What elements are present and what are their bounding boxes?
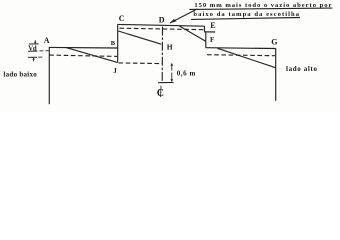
svg-text:E: E xyxy=(210,21,215,30)
svg-text:G: G xyxy=(271,38,277,47)
0,6 m dimension: up arrow xyxy=(170,63,173,71)
slope diagonal in cell C (to centerline, point H) xyxy=(118,31,161,44)
surface line A-B xyxy=(49,46,117,49)
0,6 m dimension: down arrow xyxy=(170,73,173,82)
dimension Vd: top arrow (points down to tick) xyxy=(34,40,37,44)
dimension Vd: top tick xyxy=(29,43,39,45)
dashed line under F-G xyxy=(207,55,275,56)
svg-text:J: J xyxy=(113,67,117,75)
underline of text line 1 xyxy=(189,8,332,9)
svg-text:0,6 m: 0,6 m xyxy=(177,70,196,78)
dashed line under A-B xyxy=(49,55,117,56)
wall E-F xyxy=(205,32,207,48)
right wall xyxy=(275,48,277,100)
dimension Vd: underline under label xyxy=(28,50,37,52)
bottom tick of centerline / 0,6m dimension xyxy=(158,81,174,83)
svg-text:lado baixo: lado baixo xyxy=(3,71,37,79)
leader line to arrow xyxy=(170,9,197,23)
dashed line at J level xyxy=(119,62,163,65)
dashed line under C-D xyxy=(120,28,205,30)
slope diagonal in cell D (to wall E-F) xyxy=(179,26,206,42)
surface line F-G xyxy=(206,47,276,50)
leader dash from bottom tick toward wall xyxy=(38,56,42,58)
dimension Vd: bottom tick xyxy=(28,56,37,58)
svg-text:baixo da tampa da escotilha: baixo da tampa da escotilha xyxy=(193,11,299,18)
cover lip line E xyxy=(204,31,215,33)
hatch centerline (dashed vertical) xyxy=(161,27,163,83)
surface line C-D xyxy=(117,24,204,26)
svg-text:H: H xyxy=(167,43,173,52)
left wall xyxy=(48,47,50,104)
svg-text:C: C xyxy=(119,14,125,23)
svg-text:A: A xyxy=(44,36,50,45)
svg-text:D: D xyxy=(159,16,165,25)
leader arrowhead xyxy=(169,19,176,24)
svg-text:lado alto: lado alto xyxy=(286,65,318,73)
leader dashes from Vd underline to wall xyxy=(39,50,48,52)
underline of text line 2 xyxy=(191,18,300,20)
svg-text:150 mm mais todo o vazio abert: 150 mm mais todo o vazio aberto por xyxy=(194,2,331,9)
step D to E xyxy=(204,26,206,32)
centerline symbol xyxy=(157,86,164,99)
wall B-C xyxy=(117,24,119,62)
svg-text:B: B xyxy=(111,40,116,47)
svg-text:F: F xyxy=(210,36,214,44)
slope diagonal in cell A-B xyxy=(67,48,118,63)
slope diagonal in cell F-G xyxy=(218,48,276,67)
dimension Vd: bottom arrow (points up to tick) xyxy=(32,58,35,62)
